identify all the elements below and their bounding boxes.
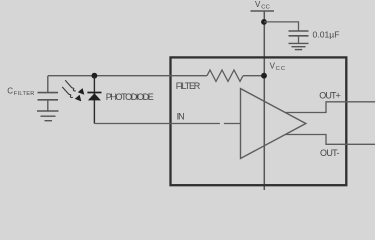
ground (bypass cap)	[289, 43, 309, 49]
svg-text:CC: CC	[261, 5, 270, 11]
photodiode D1	[87, 76, 101, 124]
op-amp U1	[241, 89, 306, 159]
svg-text:FILTER: FILTER	[14, 91, 35, 97]
wire: OUT-	[285, 135, 375, 145]
wire: IN stub to op-amp	[224, 123, 241, 125]
wire: photodiode to IN pin	[94, 123, 219, 125]
node: internal VCC junction	[261, 73, 267, 79]
label CFILTER	[7, 86, 34, 96]
VCC vertical rail wire	[263, 11, 265, 190]
svg-text:FILTER: FILTER	[176, 81, 201, 91]
svg-text:PHOTODIODE: PHOTODIODE	[106, 92, 154, 102]
node: photodiode top junction	[92, 73, 98, 79]
wire: VCC to bypass cap	[264, 22, 299, 31]
svg-text:IN: IN	[177, 111, 185, 121]
IC block outline	[171, 57, 347, 185]
resistor (internal)	[207, 70, 243, 81]
wire: OUT+	[285, 102, 375, 113]
capacitor C (0.01uF)	[289, 31, 309, 43]
ground (CFILTER)	[37, 111, 59, 121]
svg-text:OUT-: OUT-	[320, 148, 340, 158]
svg-text:CC: CC	[276, 66, 286, 72]
VCC supply bar	[251, 10, 275, 12]
svg-text:V: V	[255, 0, 261, 9]
node: VCC top junction	[261, 19, 267, 25]
wire: FILTER net from CFILTER to resistor	[48, 75, 207, 77]
svg-text:0.01µF: 0.01µF	[313, 30, 340, 40]
wire: resistor to VCC node	[243, 75, 264, 77]
svg-text:C: C	[7, 86, 13, 95]
svg-text:OUT+: OUT+	[319, 90, 341, 100]
light arrow 1	[65, 80, 84, 95]
capacitor CFILTER	[38, 76, 59, 111]
light arrow 2	[62, 87, 81, 102]
